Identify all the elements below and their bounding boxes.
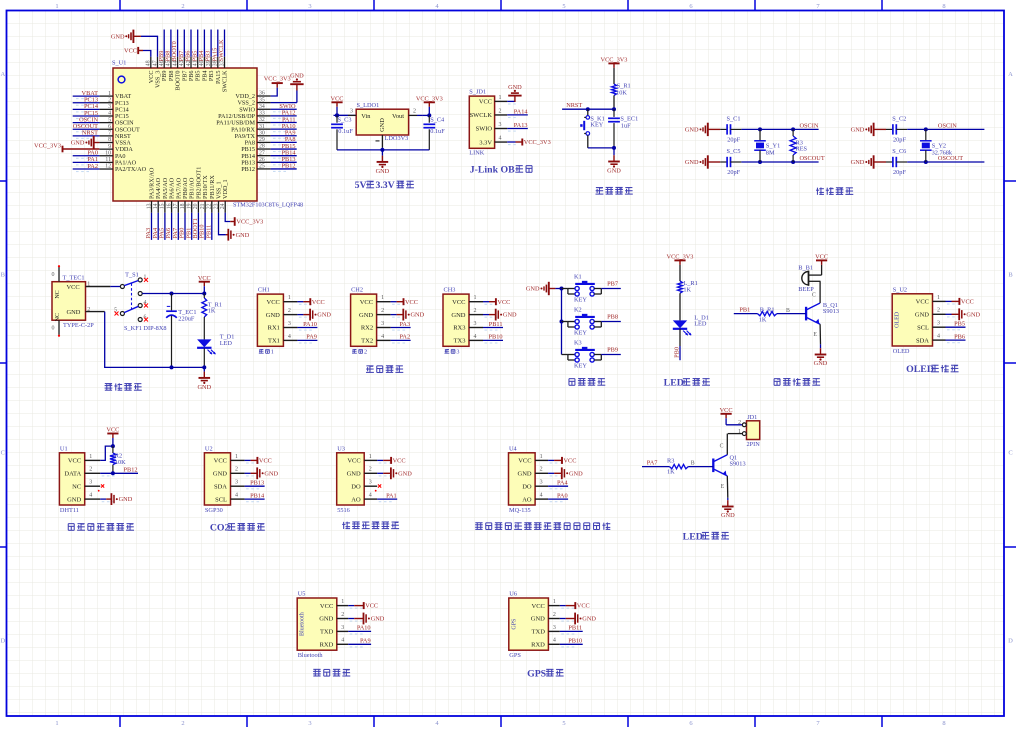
- svg-text:0.1uF: 0.1uF: [338, 128, 353, 135]
- pin 2 GND of U4: [535, 472, 548, 474]
- wire net PB7: [183, 30, 185, 57]
- wire net PB12: [100, 472, 138, 474]
- wire net PC13: [73, 102, 100, 104]
- resistor B_R1 1K: [758, 311, 777, 315]
- svg-text:3: 3: [89, 480, 92, 486]
- svg-text:VCC_3V3: VCC_3V3: [236, 219, 263, 226]
- svg-text:3: 3: [235, 480, 238, 486]
- connector U5: [297, 598, 337, 650]
- svg-text:S_LDO1: S_LDO1: [357, 102, 380, 109]
- connector TEC1 TYPE-C body: [52, 282, 86, 321]
- resistor R1 10K: [613, 68, 615, 84]
- pin 4 AO of U4: [535, 498, 548, 500]
- wire net PB7: [601, 288, 621, 290]
- pin 6 OSCOUT of U1: [99, 128, 113, 130]
- pin 42 PB6 of U1: [190, 57, 192, 68]
- svg-text:SWIO: SWIO: [476, 126, 493, 133]
- pin 12 PA2/TX/AO of U1: [99, 168, 113, 170]
- svg-text:2: 2: [738, 420, 741, 426]
- svg-text:PB11: PB11: [489, 321, 503, 328]
- svg-text:STM32F103C8T6_LQFP48: STM32F103C8T6_LQFP48: [233, 202, 303, 209]
- power port VCC at S_U2 pin 1: [952, 300, 960, 302]
- pin 1 VCC of CH1: [283, 301, 297, 303]
- svg-text:VCC: VCC: [393, 458, 406, 465]
- junction: [335, 113, 339, 117]
- wire net PA4: [157, 213, 159, 240]
- wire net PB14: [245, 498, 265, 500]
- svg-text:PA10: PA10: [303, 321, 317, 328]
- wire node B: [777, 313, 806, 315]
- power port VCC at U2 pin 1: [251, 459, 258, 461]
- svg-text:1: 1: [55, 3, 58, 10]
- svg-text:5516: 5516: [337, 507, 350, 514]
- svg-text:U4: U4: [509, 445, 518, 452]
- svg-text:10K: 10K: [616, 90, 627, 97]
- svg-text:Vout: Vout: [392, 113, 404, 120]
- wire net PA15: [217, 30, 219, 57]
- svg-text:VCC: VCC: [124, 47, 137, 54]
- svg-text:GND: GND: [851, 159, 865, 166]
- svg-text:GND: GND: [721, 512, 735, 519]
- svg-text:6: 6: [108, 124, 111, 130]
- connector U6: [509, 598, 549, 650]
- svg-text:PB10: PB10: [489, 334, 503, 341]
- wire: [337, 149, 429, 151]
- svg-text:GND: GND: [213, 471, 227, 478]
- pin 4 AO of U3: [364, 498, 377, 500]
- power port VCC: [107, 433, 118, 435]
- wire net PA8: [271, 141, 297, 143]
- caption light sensor module: [342, 522, 350, 529]
- svg-text:13: 13: [146, 203, 152, 209]
- pin 22 PB11/RX of U1: [211, 201, 213, 213]
- svg-text:K3: K3: [574, 340, 582, 347]
- svg-text:31: 31: [259, 124, 265, 130]
- resistor R3 RES: [792, 129, 794, 136]
- label 串口3: [444, 349, 449, 353]
- svg-text:5: 5: [562, 720, 565, 727]
- wire net PA0: [548, 498, 568, 500]
- svg-text:VCC: VCC: [720, 407, 733, 414]
- ground: [381, 150, 383, 156]
- svg-text:VCC: VCC: [815, 254, 828, 261]
- svg-text:PB12: PB12: [241, 166, 255, 173]
- svg-text:GND: GND: [582, 616, 596, 623]
- resistor R3 1K: [670, 464, 689, 468]
- pin 3 DO of U3: [364, 485, 377, 487]
- svg-text:OSCOUT: OSCOUT: [800, 155, 825, 162]
- connector JD1 J-Link body: [469, 96, 494, 148]
- svg-text:RXD: RXD: [320, 642, 334, 649]
- ground at S_U2 pin 2: [952, 313, 960, 315]
- pin 8 VSSA of U1: [99, 142, 113, 144]
- svg-text:GPS: GPS: [509, 652, 521, 659]
- svg-text:SCL: SCL: [917, 324, 929, 331]
- svg-text:PB12: PB12: [124, 467, 138, 474]
- svg-text:12: 12: [105, 164, 111, 170]
- svg-text:3.3V: 3.3V: [375, 180, 394, 191]
- svg-text:GND: GND: [266, 312, 280, 319]
- svg-text:SDA: SDA: [214, 483, 227, 490]
- svg-text:S_R1: S_R1: [617, 82, 631, 89]
- wire: [297, 301, 303, 303]
- svg-text:PA2/TX/AO: PA2/TX/AO: [115, 166, 147, 173]
- svg-text:19: 19: [187, 203, 193, 209]
- svg-text:17: 17: [173, 203, 179, 209]
- svg-text:4: 4: [341, 638, 344, 644]
- wire net PB6: [946, 339, 966, 341]
- svg-text:RX3: RX3: [453, 325, 465, 332]
- svg-text:1uF: 1uF: [621, 122, 631, 129]
- wire: [548, 472, 554, 474]
- pin NC top of TEC1: [58, 267, 60, 282]
- svg-text:VCC: VCC: [365, 603, 378, 610]
- transistor Q1 S9013: [712, 459, 714, 473]
- caption bluetooth module: [313, 669, 321, 676]
- svg-text:PA14: PA14: [514, 108, 529, 115]
- svg-text:B_B1: B_B1: [798, 264, 813, 271]
- pin 36 VDD_2 of U1: [257, 95, 271, 97]
- pin 44 BOOT0 of U1: [177, 57, 179, 68]
- pin 4 PC15 of U1: [99, 115, 113, 117]
- svg-text:8M: 8M: [766, 150, 775, 157]
- wire net PB13: [271, 161, 297, 163]
- wire net PB13: [245, 485, 265, 487]
- pin 16 PA6/AO of U1: [171, 201, 173, 213]
- MCU U1 STM32F103C8T6 body: [113, 68, 257, 201]
- pin 1 GND of LDO1: [381, 135, 383, 148]
- svg-text:1K: 1K: [683, 287, 691, 294]
- wire net PB11: [211, 213, 213, 240]
- svg-text:2: 2: [369, 467, 372, 473]
- svg-text:27: 27: [259, 150, 265, 156]
- svg-text:PB10: PB10: [568, 638, 582, 645]
- svg-text:AO: AO: [522, 496, 532, 503]
- svg-text:8: 8: [942, 3, 945, 10]
- ground at U1 pin 47: [141, 36, 158, 56]
- wire net PC15: [73, 115, 100, 117]
- pin 30 PA9/TX of U1: [257, 135, 271, 137]
- wire net PB0: [679, 346, 681, 360]
- svg-text:OLED: OLED: [906, 364, 934, 375]
- svg-text:5V: 5V: [355, 180, 367, 191]
- wire net SWIO: [271, 108, 297, 110]
- svg-text:2PIN: 2PIN: [747, 441, 761, 448]
- wire net PB11: [483, 327, 503, 329]
- svg-text:4: 4: [474, 334, 477, 340]
- power port VCC: [821, 265, 823, 275]
- wire net PB6: [190, 30, 192, 57]
- pin 4 SDA of S_U2: [933, 339, 946, 341]
- power port VCC_3V3 at U1 pin 9 VDDA: [62, 146, 64, 153]
- junction: [170, 365, 174, 369]
- label 串口2: [352, 349, 357, 353]
- wire net OSCOUT: [73, 128, 100, 130]
- capacitor S_C5 20pF: [720, 161, 727, 163]
- power port VCC at CH1 pin 1: [303, 301, 310, 303]
- svg-text:VCC: VCC: [267, 299, 280, 306]
- svg-text:1: 1: [108, 91, 111, 97]
- svg-text:GND: GND: [915, 312, 929, 319]
- pin 1 VCC of U1: [85, 459, 101, 461]
- connector U3: [337, 453, 365, 505]
- svg-text:GND: GND: [359, 312, 373, 319]
- ground at CH1 pin 2: [303, 314, 310, 316]
- wire: [548, 459, 554, 461]
- svg-text:3: 3: [341, 625, 344, 631]
- caption reset circuit: [595, 187, 603, 194]
- wire: [423, 114, 430, 116]
- svg-text:D: D: [1008, 638, 1013, 645]
- pin 2 GND of U3: [364, 472, 377, 474]
- wire net PB14: [271, 155, 297, 157]
- wire: [741, 128, 818, 130]
- svg-text:GPS: GPS: [511, 619, 517, 630]
- svg-text:S_U1: S_U1: [112, 60, 126, 67]
- svg-text:PB12: PB12: [282, 163, 296, 170]
- svg-text:TXD: TXD: [320, 629, 334, 636]
- svg-text:3: 3: [499, 122, 502, 128]
- power port VCC at U1 pin 48: [143, 51, 151, 57]
- power port VCC at U3 pin 1: [383, 459, 391, 461]
- wire: [297, 314, 303, 316]
- svg-text:GND: GND: [966, 311, 980, 318]
- ground at U1 pin 4: [106, 498, 111, 500]
- svg-text:Bluetooth: Bluetooth: [300, 612, 306, 636]
- svg-text:GND: GND: [508, 84, 522, 91]
- crystal S_Y1 8M: [759, 129, 761, 140]
- pin 3 SWIO of JD1: [495, 128, 508, 130]
- caption serial circuit: [366, 365, 374, 372]
- svg-text:3: 3: [308, 720, 311, 727]
- svg-text:4: 4: [381, 334, 384, 340]
- key switch K2 KEY: [562, 321, 568, 323]
- label 串口1: [259, 349, 264, 353]
- svg-text:VCC_3V3: VCC_3V3: [601, 57, 628, 64]
- pin 2 of B1: [809, 280, 821, 282]
- svg-text:RX1: RX1: [268, 325, 280, 332]
- svg-text:48: 48: [146, 60, 152, 66]
- svg-text:PA3: PA3: [399, 321, 410, 328]
- svg-text:OSCIN: OSCIN: [938, 123, 957, 130]
- svg-text:E: E: [813, 332, 817, 338]
- svg-text:T_S1: T_S1: [125, 272, 139, 279]
- pin 1 VBAT of U1: [99, 95, 113, 97]
- svg-text:PB6: PB6: [954, 333, 965, 340]
- svg-text:4: 4: [553, 638, 556, 644]
- svg-text:VCC: VCC: [452, 299, 465, 306]
- junction: [111, 471, 115, 475]
- pin 11 PA1/AO of U1: [99, 161, 113, 163]
- wire net VBAT: [73, 95, 100, 97]
- wire node B: [688, 466, 713, 468]
- svg-text:C: C: [812, 293, 816, 299]
- svg-text:VCC: VCC: [320, 603, 333, 610]
- svg-text:B: B: [786, 308, 790, 314]
- wire net PA5: [164, 213, 166, 240]
- wire: [819, 324, 821, 344]
- svg-text:14: 14: [153, 203, 159, 209]
- svg-text:PB13: PB13: [250, 480, 264, 487]
- pin 3 RX1 of CH1: [283, 327, 297, 329]
- svg-text:U5: U5: [298, 591, 306, 598]
- wire: [245, 459, 251, 461]
- svg-text:SGP30: SGP30: [205, 507, 223, 514]
- connector U4: [509, 453, 536, 505]
- svg-text:1: 1: [271, 349, 274, 356]
- svg-text:Bluetooth: Bluetooth: [298, 652, 324, 659]
- svg-text:VCC_3V3: VCC_3V3: [524, 139, 551, 146]
- svg-text:U6: U6: [509, 591, 517, 598]
- pin 25 PB12 of U1: [257, 168, 271, 170]
- svg-text:5: 5: [108, 117, 111, 123]
- svg-text:1: 1: [381, 295, 384, 301]
- wire: [907, 161, 984, 163]
- pin 1 VCC of JD1: [495, 100, 508, 102]
- LED L_D1: [673, 320, 687, 328]
- wire: [907, 128, 984, 130]
- wire net PA1: [73, 161, 100, 163]
- svg-text:2: 2: [474, 308, 477, 314]
- wire: [142, 293, 204, 295]
- wire net PA9: [348, 643, 371, 645]
- svg-text:3: 3: [369, 480, 372, 486]
- svg-text:11: 11: [105, 157, 111, 163]
- svg-text:NRST: NRST: [82, 130, 98, 137]
- svg-text:VCC_3V3: VCC_3V3: [416, 96, 443, 103]
- wire net PB15: [271, 148, 297, 150]
- wire net PA3: [391, 327, 411, 329]
- junction: [924, 127, 928, 131]
- no-connect marker at U1 pin 3: [101, 484, 104, 487]
- wire: [348, 618, 354, 620]
- wire net NRST: [562, 108, 614, 110]
- svg-text:GND: GND: [814, 360, 828, 367]
- wire net PB5: [197, 30, 199, 57]
- svg-text:GND: GND: [317, 312, 331, 319]
- svg-text:2: 2: [540, 467, 543, 473]
- caption key circuit: [569, 379, 575, 386]
- power port VCC at CH3 pin 1: [489, 301, 496, 303]
- svg-text:TX3: TX3: [454, 338, 466, 345]
- svg-text:OSCIN: OSCIN: [800, 123, 819, 130]
- pin 28 PB15 of U1: [257, 148, 271, 150]
- svg-text:LED: LED: [220, 340, 233, 347]
- svg-text:PA2: PA2: [399, 334, 410, 341]
- wire: [483, 301, 489, 303]
- caption crystal circuit: [816, 187, 824, 194]
- svg-text:20pF: 20pF: [727, 169, 740, 176]
- svg-text:NC: NC: [72, 483, 81, 490]
- svg-text:PB1: PB1: [739, 307, 750, 314]
- svg-text:VDD_1: VDD_1: [222, 179, 229, 199]
- wire net PA14: [507, 114, 528, 116]
- svg-text:20pF: 20pF: [893, 137, 906, 144]
- pin 17 PA7/AO of U1: [177, 201, 179, 213]
- power port VCC_3V3 at U1 pin 36: [271, 88, 278, 96]
- svg-text:20pF: 20pF: [727, 137, 740, 144]
- svg-text:GND: GND: [526, 286, 540, 293]
- pin 10 PA0 of U1: [99, 155, 113, 157]
- svg-text:GPS: GPS: [527, 668, 547, 679]
- svg-text:2: 2: [181, 720, 184, 727]
- svg-text:PA10: PA10: [357, 625, 371, 632]
- svg-text:KEY: KEY: [574, 330, 587, 337]
- svg-text:PB0: PB0: [673, 347, 680, 358]
- svg-text:MQ-135: MQ-135: [509, 507, 531, 514]
- svg-text:2: 2: [381, 308, 384, 314]
- pin 47 VSS_3 of U1: [157, 57, 159, 68]
- svg-text:S_C1: S_C1: [727, 116, 741, 123]
- svg-text:R3: R3: [667, 458, 674, 465]
- svg-text:20pF: 20pF: [893, 169, 906, 176]
- key switch K1 KEY: [562, 288, 568, 290]
- svg-text:PB11: PB11: [205, 225, 212, 239]
- pin 23 VSS_1 of U1: [218, 201, 220, 213]
- svg-text:GND: GND: [411, 312, 425, 319]
- svg-text:3: 3: [937, 321, 940, 327]
- svg-text:GND: GND: [518, 471, 532, 478]
- pin 45 PB8 of U1: [170, 57, 172, 68]
- pin 3 SCL of S_U2: [933, 326, 946, 328]
- svg-text:GND: GND: [67, 309, 81, 316]
- pin 5 OSCIN of U1: [99, 122, 113, 124]
- svg-text:DO: DO: [351, 483, 361, 490]
- buzzer B_B1 BEEP: [802, 272, 809, 285]
- wire net PB10: [204, 213, 206, 240]
- wire net PB12: [271, 168, 297, 170]
- svg-text:220uF: 220uF: [178, 316, 195, 323]
- power port VCC_3V3 at U1 pin 24 VDD_1: [225, 213, 230, 222]
- pin 2 GND of U6: [548, 618, 559, 620]
- pin 3 SDA of U2: [231, 485, 245, 487]
- svg-text:LED: LED: [683, 531, 703, 542]
- svg-text:TYPE-C-2P: TYPE-C-2P: [63, 322, 94, 329]
- connector CH3: [443, 294, 469, 346]
- svg-text:SDA: SDA: [916, 337, 929, 344]
- wire: [946, 313, 952, 315]
- wire net PA2: [391, 339, 411, 341]
- power port VCC_3V3: [674, 259, 685, 261]
- svg-text:GND: GND: [376, 168, 390, 175]
- svg-text:1K: 1K: [759, 317, 767, 324]
- svg-text:U1: U1: [60, 445, 68, 452]
- connector CH2: [351, 294, 377, 346]
- caption air quality module: [475, 523, 483, 530]
- svg-text:VCC: VCC: [916, 299, 929, 306]
- wire net PB5: [946, 326, 966, 328]
- svg-text:VCC: VCC: [405, 299, 418, 306]
- wire net NRST: [73, 135, 100, 137]
- svg-text:18: 18: [180, 203, 186, 209]
- power port VCC: [721, 413, 732, 415]
- wire: [391, 301, 397, 303]
- svg-text:35: 35: [259, 97, 265, 103]
- svg-text:1: 1: [553, 599, 556, 605]
- pin 20 PB2/BOOT1 of U1: [197, 201, 199, 213]
- junction: [111, 444, 115, 448]
- capacitor S_C2 20pF: [886, 128, 893, 130]
- svg-text:8: 8: [942, 720, 945, 727]
- svg-text:RXD: RXD: [531, 642, 545, 649]
- power port VCC at U4 pin 1: [554, 459, 562, 461]
- capacitor C4 0.1uF: [428, 115, 430, 122]
- wire net PA10: [271, 128, 297, 130]
- svg-text:VCC_3V3: VCC_3V3: [34, 142, 61, 149]
- wire net PA4: [548, 485, 568, 487]
- svg-text:K2: K2: [574, 307, 582, 314]
- svg-text:AO: AO: [351, 496, 361, 503]
